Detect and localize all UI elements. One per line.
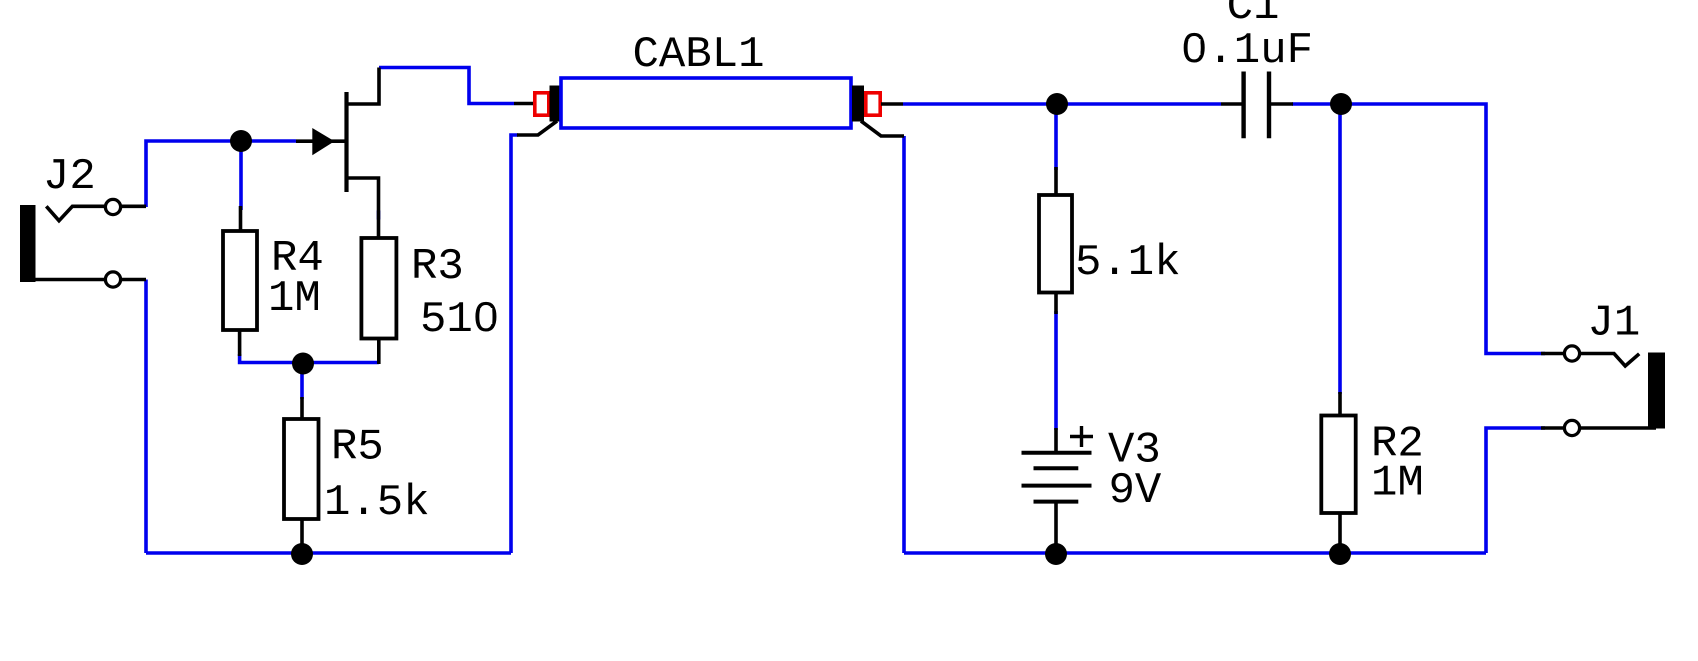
wire node down to 5.1k resistor	[1054, 104, 1058, 170]
wire C1 to J1 tip	[1292, 104, 1545, 354]
wire J2 sleeve down to ground rail	[144, 280, 148, 554]
svg-text:5.1k: 5.1k	[1075, 238, 1181, 288]
resistor 5.1k	[1039, 167, 1072, 314]
junction at R2 ground	[1329, 543, 1351, 565]
connector J2	[20, 199, 146, 287]
wire right shield riser	[902, 136, 906, 553]
junction at battery ground	[1045, 543, 1067, 565]
wire J1 sleeve to ground rail	[1486, 428, 1545, 553]
svg-text:0.1uF: 0.1uF	[1181, 26, 1313, 76]
wire drain to cable left	[379, 68, 514, 104]
capacitor C1	[1221, 72, 1293, 139]
junction at C1/R2 node	[1330, 93, 1352, 115]
wire left ground rail	[146, 551, 511, 555]
junction at cable/5.1k node	[1046, 93, 1068, 115]
wire node down to R5	[300, 362, 304, 399]
cable CABL1	[514, 78, 904, 136]
junction at gate node	[230, 130, 252, 152]
wire node down to R2	[1338, 104, 1342, 394]
wire left shield riser	[511, 135, 518, 553]
wire R4 bottom to R3 bottom	[240, 354, 379, 363]
wire cable right to C1	[903, 102, 1221, 106]
svg-text:CABL1: CABL1	[633, 30, 765, 80]
connector J1	[1541, 346, 1665, 436]
wire 5.1k resistor to battery	[1054, 311, 1058, 430]
transistor Q1 (N-JFET)	[296, 68, 379, 241]
junction at R4/R3/R5 node	[292, 353, 314, 375]
wire right ground rail	[904, 551, 1486, 555]
svg-text:1.5k: 1.5k	[324, 478, 430, 528]
junction at R5 ground	[291, 543, 313, 565]
svg-text:1M: 1M	[268, 274, 321, 324]
wire gate node down to R4	[239, 141, 243, 210]
wire J2 tip up to gate node	[146, 141, 296, 207]
resistor R2	[1321, 392, 1355, 553]
battery V3	[1022, 426, 1094, 553]
svg-text:J1: J1	[1588, 299, 1641, 349]
svg-text:J2: J2	[43, 152, 96, 202]
wire source to R3	[377, 211, 381, 220]
svg-text:1M: 1M	[1371, 459, 1424, 509]
resistor R5	[284, 397, 319, 553]
svg-text:R5: R5	[331, 423, 384, 473]
resistor R3	[361, 238, 396, 364]
svg-text:9V: 9V	[1109, 466, 1162, 516]
resistor R4	[223, 206, 257, 356]
svg-text:R3: R3	[411, 242, 464, 292]
